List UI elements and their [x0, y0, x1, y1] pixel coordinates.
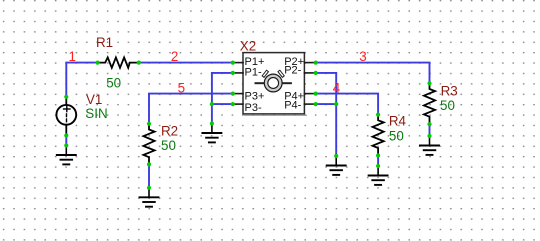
- svg-text:50: 50: [106, 75, 121, 90]
- X2 box: [243, 53, 304, 114]
- svg-text:50: 50: [161, 138, 176, 153]
- wire node4 vertical: P2- down to ground: [316, 73, 337, 156]
- svg-text:50: 50: [389, 129, 404, 144]
- resistor R4: [373, 115, 384, 156]
- junction R3 ground pin: [427, 134, 431, 138]
- junction V1 ground pin: [64, 143, 68, 147]
- junction X2 pin P3-: [231, 102, 235, 106]
- ground (G2 below X2 left): [202, 124, 221, 143]
- junction ground pin (node 4 net): [334, 154, 338, 158]
- V1 minus dashes: [66, 114, 68, 117]
- junction T of P4- branch / node 4: [334, 102, 338, 106]
- wire P1- down to ground G2: [212, 73, 233, 124]
- svg-text:50: 50: [440, 98, 455, 113]
- ground (below R3): [420, 136, 439, 155]
- ground (below R2): [140, 188, 159, 207]
- wire node2: R1 right to X2 P1+: [139, 62, 233, 64]
- junction T of P3- branch: [210, 102, 214, 106]
- junction R1 pin 1 / node 1: [96, 61, 100, 65]
- X2 transformer icon: [256, 70, 291, 92]
- junction R2 ground pin: [147, 186, 151, 190]
- wire R2 bottom to ground: [148, 164, 150, 187]
- junction X2 pin P2- / node 4: [314, 71, 318, 75]
- svg-text:P3-: P3-: [245, 102, 262, 114]
- junction R2 pin 1 / node 5: [147, 122, 151, 126]
- V1 plus mark: [64, 108, 70, 110]
- ground (below R4): [369, 166, 388, 185]
- X2 pin stubs left: [233, 63, 316, 105]
- svg-text:X2: X2: [240, 38, 256, 53]
- resistor R2: [143, 124, 154, 165]
- junction X2 pin P1-: [231, 71, 235, 75]
- svg-text:P3+: P3+: [245, 91, 265, 103]
- junction ground pin G2: [210, 121, 214, 125]
- wire P4- branch to node4: [316, 103, 337, 105]
- svg-text:P4-: P4-: [284, 99, 301, 111]
- svg-text:R1: R1: [96, 35, 113, 50]
- resistor R1: [98, 57, 139, 67]
- ground (node4 net): [327, 156, 346, 175]
- junction R3 pin 2: [427, 122, 431, 126]
- V1 top pin lead: [65, 97, 67, 105]
- svg-text:V1: V1: [86, 92, 102, 107]
- wire R3 bottom to ground: [429, 124, 431, 136]
- svg-text:R4: R4: [389, 114, 407, 129]
- junction X2 pin P1+: [231, 61, 235, 65]
- ground (V1): [57, 146, 76, 165]
- wire P4+ to R4 top: [316, 94, 378, 115]
- junction R4 pin 2: [376, 153, 380, 157]
- junction R4 pin 1: [376, 113, 380, 117]
- svg-text:4: 4: [333, 80, 341, 95]
- V1 bottom pin lead: [65, 125, 67, 136]
- svg-text:3: 3: [359, 49, 366, 64]
- wire R4 bottom to ground: [377, 156, 379, 167]
- wire node1: V1 top to R1 left: [66, 63, 97, 97]
- junction R1 pin 2 / node 2: [137, 61, 141, 65]
- svg-text:SIN: SIN: [85, 106, 107, 121]
- svg-text:1: 1: [69, 49, 76, 64]
- X2 box bottom shadow: [245, 114, 307, 116]
- junction X2 pin P2+ / node 3: [314, 61, 318, 65]
- junction X2 pin P3+: [231, 92, 235, 96]
- svg-text:R3: R3: [441, 83, 458, 98]
- junction V1 pin -: [64, 133, 68, 137]
- junction R4 ground pin: [376, 164, 380, 168]
- junction R3 pin 1 / node 3: [427, 81, 431, 85]
- wire node3: X2 P2+ to R3 top: [316, 63, 430, 84]
- wire P3- branch: [212, 103, 233, 105]
- wire V1 bottom to ground: [65, 136, 67, 146]
- junction X2 pin P4-: [314, 102, 318, 106]
- wire node5: P3+ to R2 top: [149, 94, 233, 124]
- svg-text:R2: R2: [161, 123, 178, 138]
- voltage source V1: [56, 97, 76, 136]
- junction R2 pin 2: [147, 162, 151, 166]
- resistor R3: [424, 83, 435, 124]
- svg-text:5: 5: [178, 81, 185, 96]
- svg-text:P1-: P1-: [245, 67, 262, 79]
- svg-text:P2-: P2-: [284, 65, 301, 77]
- junction X2 pin P4+: [314, 92, 318, 96]
- junction V1 pin +: [64, 95, 68, 99]
- X2 pin stubs right: [304, 62, 315, 64]
- V1 body circle: [56, 105, 76, 125]
- svg-text:2: 2: [171, 49, 178, 64]
